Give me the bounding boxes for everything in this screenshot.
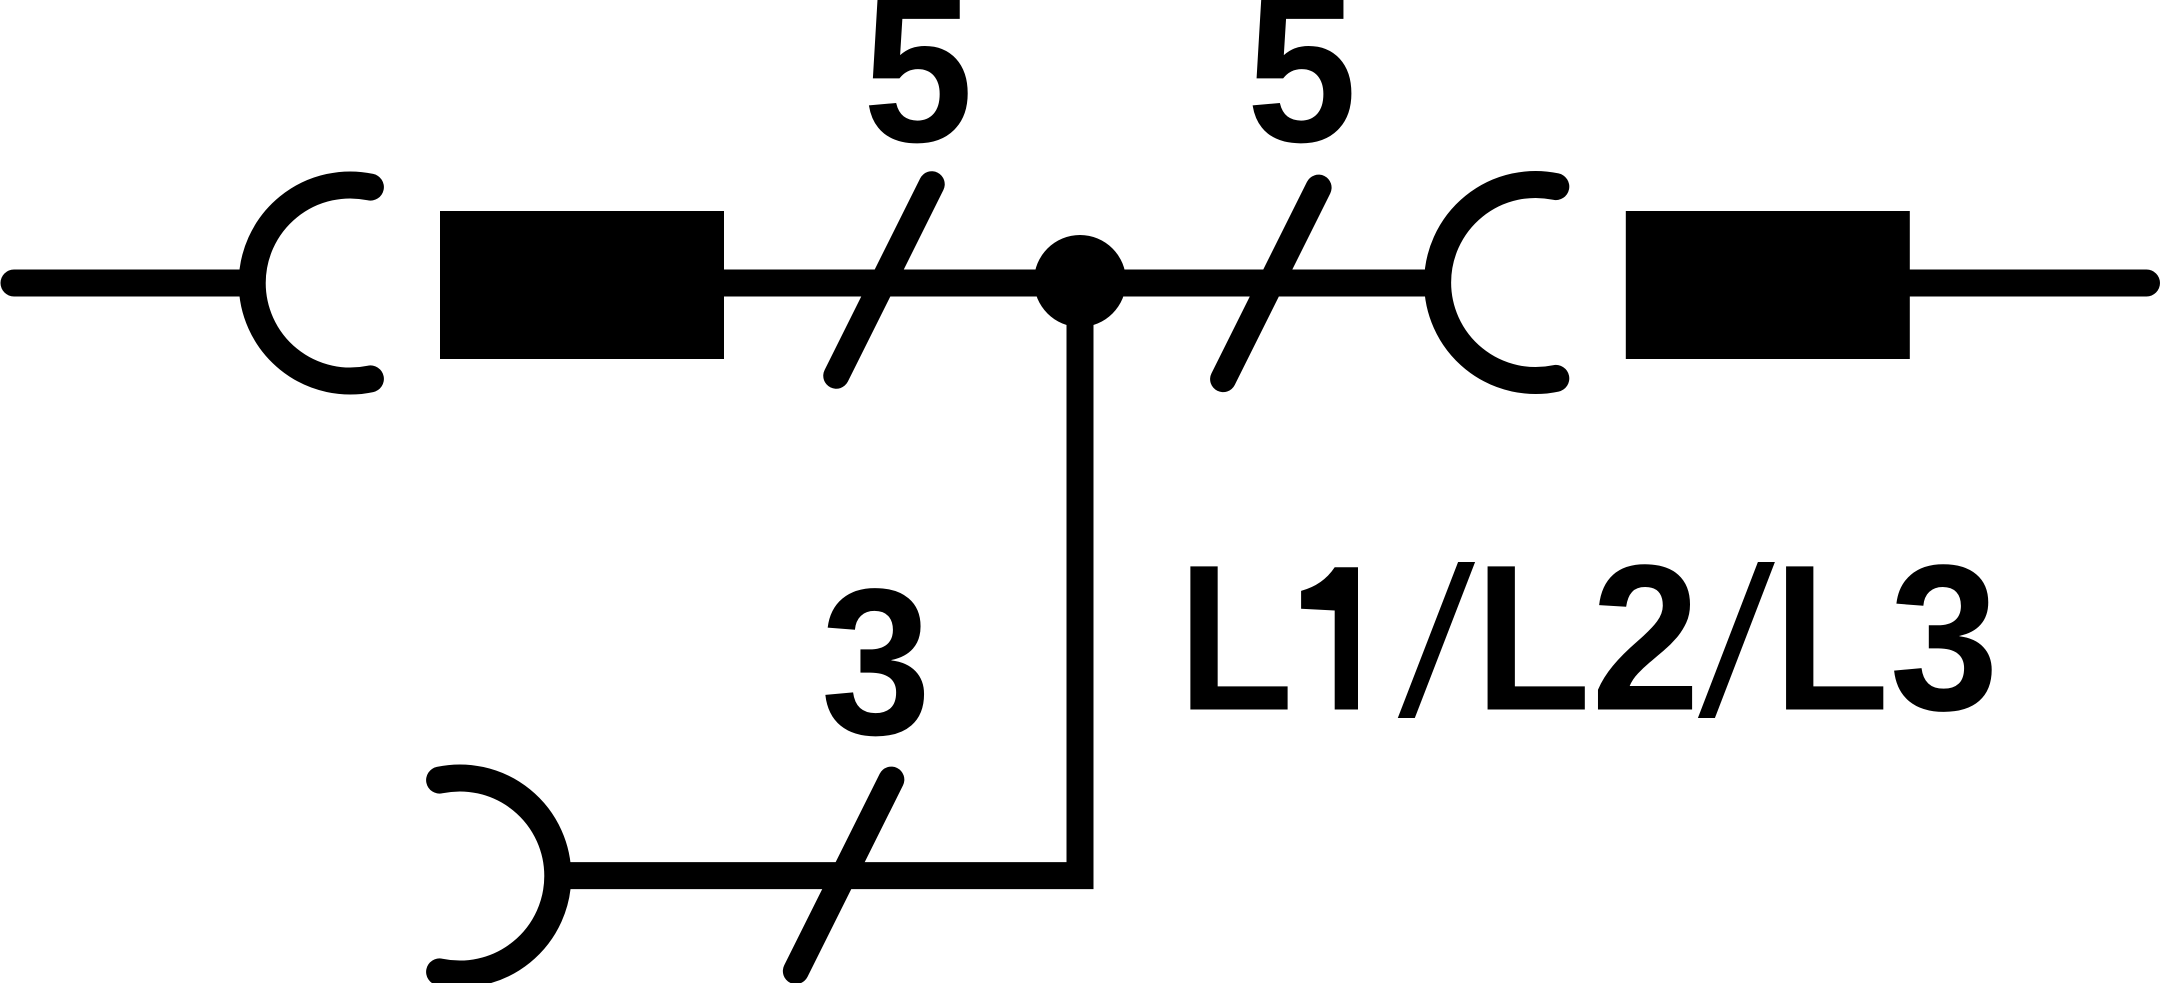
wire: from junction to right connector — [1080, 270, 1434, 297]
conductor slash (5 wires) left — [836, 184, 932, 376]
svg-text:5: 5 — [863, 0, 973, 186]
connector socket left (opening right) — [252, 185, 370, 381]
svg-text:2: 2 — [1591, 521, 1700, 754]
wire: vertical branch and bottom run — [562, 281, 1080, 876]
cable W2 (black rectangle) — [1626, 211, 1910, 359]
wire: from cable W1 to junction — [720, 270, 1080, 297]
connector socket bottom (opening left) — [440, 778, 558, 974]
svg-text:3: 3 — [1890, 521, 1999, 753]
cable W1 (black rectangle) — [440, 211, 724, 359]
wire: main line right segment — [1905, 270, 2147, 297]
conductor slash (5 wires) right — [1223, 188, 1319, 380]
svg-text:3: 3 — [821, 545, 931, 779]
net label L1/L2/L3 — [1178, 521, 1999, 755]
svg-text:L: L — [1773, 522, 1889, 754]
connector socket right (opening right) — [1438, 185, 1556, 381]
svg-text:5: 5 — [1247, 0, 1357, 186]
svg-text:L: L — [1475, 522, 1591, 754]
wire: main line left segment — [14, 270, 248, 297]
conductor slash (3 wires) bottom — [796, 780, 892, 972]
svg-text:L: L — [1178, 522, 1294, 754]
junction node — [1034, 235, 1126, 327]
